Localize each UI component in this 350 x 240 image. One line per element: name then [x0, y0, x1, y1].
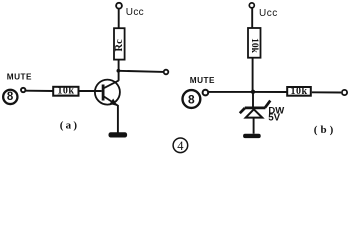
zener diode DW wire from node	[252, 92, 254, 107]
zener cathode bar	[245, 107, 266, 110]
svg-text:10k: 10k	[290, 86, 307, 97]
input terminal (a)	[21, 88, 25, 92]
output terminal (a)	[164, 70, 169, 75]
svg-text:(b): (b)	[314, 124, 336, 136]
wire node to output (a)	[118, 71, 163, 72]
output terminal (b)	[342, 90, 347, 95]
wire R3 to output (b)	[312, 91, 341, 93]
resistor R2 10k vertical (b)	[248, 28, 261, 58]
svg-text:5V: 5V	[268, 113, 280, 124]
Vcc terminal (b)	[249, 3, 254, 8]
transistor Q1 base bar	[102, 85, 105, 101]
svg-text:MUTE: MUTE	[190, 76, 215, 85]
svg-text:MUTE: MUTE	[7, 72, 32, 81]
svg-text:Rc: Rc	[114, 39, 125, 52]
zener anode wire	[253, 118, 255, 134]
transistor Q1 circle	[95, 80, 120, 105]
transistor Q1 collector diagonal	[104, 81, 119, 89]
emitter wire to ground	[117, 105, 119, 133]
svg-text:4: 4	[177, 139, 184, 153]
wire R2 to node (b)	[252, 58, 254, 93]
ground (b)	[243, 134, 261, 138]
wire input to R1 (a)	[25, 90, 53, 92]
junction dot node (b)	[251, 90, 255, 94]
wire Vcc to R2 (b)	[251, 8, 253, 28]
zener left tick	[240, 108, 245, 113]
svg-text:(a): (a)	[60, 119, 79, 131]
svg-text:Ucc: Ucc	[126, 7, 144, 18]
resistor R3 10k horizontal (b)	[287, 87, 311, 96]
pin 8 terminal (a)	[3, 90, 17, 104]
wire R1 to base (a)	[79, 90, 102, 92]
svg-text:8: 8	[188, 92, 195, 106]
horizontal wire input to R3 (b)	[208, 91, 287, 93]
transistor Q1 emitter diagonal	[104, 96, 118, 105]
zener triangle anode	[246, 109, 263, 117]
svg-text:Ucc: Ucc	[259, 8, 278, 19]
Vcc terminal (a)	[116, 3, 122, 9]
pin 8 terminal (b)	[183, 90, 201, 108]
ground (a)	[109, 132, 128, 137]
figure number circle 4	[173, 138, 188, 153]
svg-text:8: 8	[7, 91, 14, 103]
svg-text:10k: 10k	[249, 38, 259, 54]
zener right tick	[265, 101, 270, 108]
wire Rc to collector node	[118, 60, 120, 81]
input terminal (b)	[203, 90, 209, 96]
transistor Q1 emitter arrow	[110, 99, 118, 107]
resistor Rc	[114, 28, 125, 59]
resistor R1 10k (a)	[53, 87, 78, 96]
svg-text:10k: 10k	[57, 86, 74, 97]
junction dot node collector	[117, 69, 121, 73]
wire Vcc to Rc (a)	[118, 9, 120, 29]
